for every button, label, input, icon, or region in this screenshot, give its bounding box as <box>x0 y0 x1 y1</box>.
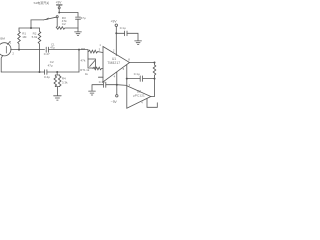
wire pin5 to U2 input <box>126 65 128 86</box>
battery terminal bar BT+ <box>57 4 63 6</box>
svg-text:μPC121: μPC121 <box>133 93 145 97</box>
wire pin4 down <box>116 72 118 95</box>
potentiometer RP body <box>88 59 96 68</box>
resistor R3 wire from switch <box>56 18 58 27</box>
wire pin2 supply <box>115 26 117 55</box>
capacitor C4 0.1u <box>140 76 142 82</box>
svg-text:3: 3 <box>129 83 131 87</box>
resistor R2 <box>38 28 41 72</box>
svg-text:2: 2 <box>12 51 14 55</box>
svg-text:TM8217: TM8217 <box>107 61 120 65</box>
wire cap to ground <box>92 85 103 91</box>
svg-text:1: 1 <box>10 40 12 44</box>
svg-text:RP: RP <box>81 47 85 51</box>
resistor R1 <box>18 28 21 50</box>
node R4 junction <box>56 71 58 73</box>
node R2 bottom junction <box>39 71 41 73</box>
svg-text:1k: 1k <box>85 72 89 76</box>
wire cap to ground <box>127 33 138 40</box>
wire C1 to pot <box>49 49 89 51</box>
capacitor C5 (left leg) <box>54 75 57 87</box>
wire from S1 upper contact to supply node <box>58 9 60 12</box>
switch S1 lower contact <box>56 16 58 18</box>
resistor R3 zigzag <box>56 27 78 30</box>
svg-text:0.47: 0.47 <box>44 52 50 56</box>
wire U1 output <box>130 62 155 64</box>
switch S1 lever with arrow <box>44 17 57 20</box>
node mic/R1 junction <box>18 49 20 51</box>
mic terminal tick 1 <box>8 41 11 44</box>
-9V terminal <box>116 95 118 97</box>
wire stub U1 inverting input <box>98 76 103 78</box>
svg-text:47μ: 47μ <box>81 16 86 20</box>
svg-text:5.6k: 5.6k <box>32 35 38 39</box>
svg-text:0.1μ: 0.1μ <box>120 26 126 30</box>
wire R4 pair to ground <box>55 87 59 96</box>
svg-text:+9V: +9V <box>56 0 63 4</box>
wire mic bottom to ground rail <box>1 55 3 72</box>
svg-text:−9V: −9V <box>111 100 118 104</box>
svg-text:C2: C2 <box>62 22 66 26</box>
node pin4/-9V junction <box>116 84 118 86</box>
mic internal electrode <box>5 46 7 53</box>
ground (decoupling) <box>135 41 142 45</box>
node signal/feedback junction <box>78 49 80 51</box>
node output/R6 junction <box>154 62 156 64</box>
wire signal down to bottom rail <box>78 50 80 72</box>
op-amp U2 <box>127 86 151 108</box>
svg-text:2: 2 <box>113 49 115 53</box>
node pin2/decoupling junction <box>115 32 117 34</box>
wire to decoupling cap <box>116 32 124 34</box>
wire supply node to C2 <box>59 13 78 17</box>
resistor R4 (right leg) <box>58 75 61 87</box>
capacitor C2 <box>76 17 81 19</box>
node supply junction <box>58 12 60 14</box>
svg-text:S1电源开关: S1电源开关 <box>34 0 50 5</box>
capacitor C1 <box>46 47 48 52</box>
wire C4 line <box>127 78 155 80</box>
wire node to bypass cap <box>106 84 117 86</box>
wire lever to bias rail <box>31 19 44 21</box>
capacitor C3 (series in bottom rail) <box>45 70 47 75</box>
ground (R4) <box>54 96 62 100</box>
node R6/C4 junction <box>154 78 156 80</box>
resistor R5 (upper zigzag to U1 +in) <box>88 50 102 53</box>
potentiometer RP top feed <box>87 50 89 59</box>
svg-text:BM: BM <box>0 36 5 40</box>
svg-text:4: 4 <box>141 101 143 105</box>
capacitor C6 0.1u <box>125 31 127 36</box>
wire bias rail <box>19 27 40 29</box>
potentiometer RP wiper arrow <box>90 61 95 67</box>
wire mic output <box>11 49 45 51</box>
svg-text:4: 4 <box>114 74 116 78</box>
resistor RT1 (lower zigzag) <box>93 67 103 70</box>
ground (C7) <box>89 91 96 95</box>
capacitor C7 0.1u <box>103 82 105 87</box>
wire U2 output to R6 <box>151 96 155 98</box>
node pin5/C4 junction <box>126 78 128 80</box>
wire -9V node to U2 <box>117 84 127 87</box>
svg-text:47μ: 47μ <box>48 64 53 68</box>
svg-text:5: 5 <box>123 67 125 71</box>
svg-text:3.3k: 3.3k <box>62 80 68 84</box>
svg-text:0.1μ: 0.1μ <box>134 72 140 76</box>
svg-text:47μ: 47μ <box>50 45 55 49</box>
node bias rail junction <box>30 27 32 29</box>
ground (R3/C2) <box>75 28 82 35</box>
op-amp U1 <box>103 47 130 83</box>
microphone BM <box>0 43 11 56</box>
switch S1 upper contact <box>58 7 60 9</box>
wire U2 bottom pin <box>147 98 157 107</box>
svg-text:1M: 1M <box>22 35 27 39</box>
svg-text:0.4μ: 0.4μ <box>44 75 50 79</box>
wire bottom rail <box>1 71 79 73</box>
wire rail to R4/C pair <box>55 72 59 75</box>
svg-text:8: 8 <box>128 58 130 62</box>
resistor R6 <box>153 63 156 97</box>
svg-text:+9V: +9V <box>111 20 118 24</box>
svg-text:3: 3 <box>99 48 101 52</box>
svg-text:1: 1 <box>99 43 101 47</box>
svg-text:47k: 47k <box>81 58 86 62</box>
svg-text:0.1μ: 0.1μ <box>99 80 105 84</box>
